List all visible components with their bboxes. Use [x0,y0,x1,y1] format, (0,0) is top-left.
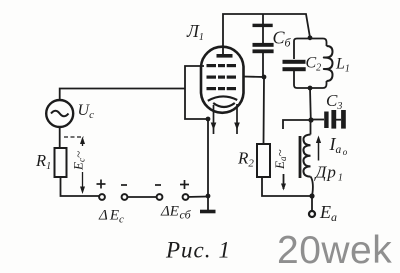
svg-text:Рис.1: Рис.1 [165,238,231,263]
svg-text:20wek: 20wek [277,229,392,272]
